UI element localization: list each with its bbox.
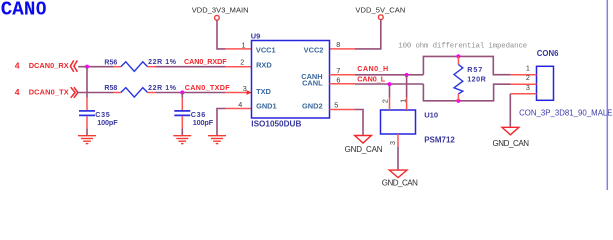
node R57 top junction xyxy=(456,54,460,58)
svg-text:RXD: RXD xyxy=(256,60,272,69)
resistor R57 xyxy=(457,56,459,64)
wire RX branch down to C35 xyxy=(86,67,88,98)
svg-text:PSM712: PSM712 xyxy=(424,135,455,144)
svg-text:1: 1 xyxy=(398,99,407,103)
svg-text:3: 3 xyxy=(388,141,397,145)
ground below C35 xyxy=(78,136,96,144)
svg-text:8: 8 xyxy=(336,40,340,49)
svg-text:CAN0_L: CAN0_L xyxy=(357,74,386,83)
wire VDD_5V_CAN to U9 pin8 xyxy=(355,20,381,49)
power VDD_5V_CAN symbol xyxy=(378,15,383,20)
wire CON6 pin3 to ground xyxy=(509,94,511,127)
ground arrow below CON6 xyxy=(502,127,519,135)
sheet border xyxy=(606,0,608,190)
svg-text:R58: R58 xyxy=(104,85,117,92)
IC U9 ISO1050DUB xyxy=(252,41,330,119)
svg-text:CAN0_H: CAN0_H xyxy=(357,64,388,73)
svg-text:GND_CAN: GND_CAN xyxy=(493,139,530,148)
wire TX branch down to C36 xyxy=(181,93,183,98)
wire VDD_3V3_MAIN to U9 pin1 xyxy=(217,20,226,49)
svg-text:R56: R56 xyxy=(104,59,117,66)
ground below C36 xyxy=(173,136,191,144)
ground below pin4 xyxy=(208,136,226,144)
svg-text:VDD_5V_CAN: VDD_5V_CAN xyxy=(355,6,405,15)
resistor R58 xyxy=(114,92,121,94)
ground arrow below U9 pin5 xyxy=(355,136,372,144)
svg-text:3: 3 xyxy=(526,83,530,92)
U9 pin 7 stub xyxy=(330,74,356,76)
svg-text:4: 4 xyxy=(15,87,20,97)
svg-text:CON6: CON6 xyxy=(537,49,559,58)
wire TX to pin3, net CAN0_TXDF xyxy=(156,92,226,94)
wire CAN0_L xyxy=(355,83,423,85)
CON6 pin 2 stub xyxy=(511,83,537,85)
svg-text:GND2: GND2 xyxy=(302,102,323,111)
U9 pin 1 stub xyxy=(226,48,252,50)
wire RX row xyxy=(78,66,113,68)
svg-text:100 ohm differential impedance: 100 ohm differential impedance xyxy=(398,42,527,50)
svg-text:CAN0_TXDF: CAN0_TXDF xyxy=(185,83,231,92)
U9 pin 6 stub xyxy=(330,83,356,85)
svg-text:VDD_3V3_MAIN: VDD_3V3_MAIN xyxy=(192,6,249,15)
U9 pin 5 stub xyxy=(330,109,356,111)
wire pin4 to ground xyxy=(217,109,226,136)
svg-text:U9: U9 xyxy=(251,31,260,40)
wire U9 pin5 to ground xyxy=(355,110,363,136)
svg-text:6: 6 xyxy=(336,75,340,84)
svg-text:100pF: 100pF xyxy=(97,118,118,127)
svg-text:22R 1%: 22R 1% xyxy=(148,85,177,92)
resistor R56 xyxy=(114,66,121,68)
U9 pin 2 stub xyxy=(226,66,252,68)
svg-text:5: 5 xyxy=(334,100,338,109)
U10 pin 2 stub xyxy=(389,84,391,97)
svg-text:7: 7 xyxy=(336,66,340,75)
svg-text:100pF: 100pF xyxy=(193,118,214,127)
U10 pin 1 stub xyxy=(406,75,408,98)
svg-text:U10: U10 xyxy=(424,111,438,120)
U9 pin 8 stub xyxy=(330,48,356,50)
wire RX to pin2, net CAN0_RXDF xyxy=(156,66,226,68)
capacitor C35 xyxy=(79,110,95,112)
capacitor C36 xyxy=(174,110,190,112)
node L junction xyxy=(387,82,391,86)
connector CON6 box xyxy=(537,66,554,100)
svg-text:CAN0: CAN0 xyxy=(1,0,47,21)
svg-text:GND1: GND1 xyxy=(256,102,277,111)
U9 pin 4 stub xyxy=(226,108,252,110)
svg-text:CANL: CANL xyxy=(302,79,323,88)
svg-text:2: 2 xyxy=(240,58,244,67)
wire H loop top xyxy=(423,56,510,74)
svg-text:4: 4 xyxy=(15,61,20,71)
IC U10 PSM712 xyxy=(381,110,416,134)
svg-text:VCC1: VCC1 xyxy=(256,45,276,54)
svg-text:GND_CAN: GND_CAN xyxy=(382,179,418,188)
wire TX row xyxy=(78,92,113,94)
wire U10 pin3 to ground xyxy=(397,147,399,170)
svg-text:DCAN0_TX: DCAN0_TX xyxy=(29,88,69,97)
node R57 bottom junction xyxy=(456,99,460,103)
svg-text:120R: 120R xyxy=(467,74,486,83)
svg-text:3: 3 xyxy=(243,84,247,93)
svg-text:GND_CAN: GND_CAN xyxy=(345,145,383,154)
svg-text:1: 1 xyxy=(242,40,246,49)
CON6 pin 1 stub xyxy=(511,74,537,76)
ground arrow below U10 xyxy=(389,170,407,178)
node TX junction xyxy=(180,90,184,94)
svg-text:CON_3P_3D81_90_MALE: CON_3P_3D81_90_MALE xyxy=(519,108,612,117)
svg-text:2: 2 xyxy=(381,99,390,103)
power VDD_3V3_MAIN symbol xyxy=(215,15,220,20)
svg-text:VCC2: VCC2 xyxy=(304,45,324,54)
svg-text:TXD: TXD xyxy=(256,87,271,96)
svg-text:4: 4 xyxy=(238,100,242,109)
svg-text:ISO1050DUB: ISO1050DUB xyxy=(251,120,301,129)
svg-text:CAN0_RXDF: CAN0_RXDF xyxy=(184,57,227,66)
svg-text:DCAN0_RX: DCAN0_RX xyxy=(29,61,69,70)
wire CAN0_H xyxy=(355,74,423,76)
U10 pin 3 stub xyxy=(397,134,399,147)
U9 pin 3 stub with arrow xyxy=(226,92,252,94)
svg-text:1: 1 xyxy=(526,63,530,72)
node H junction xyxy=(405,73,409,77)
node RX junction xyxy=(85,65,89,69)
svg-text:R57: R57 xyxy=(467,65,482,74)
svg-text:22R 1%: 22R 1% xyxy=(148,59,177,66)
CON6 pin 3 stub xyxy=(511,93,537,95)
wire L loop bottom xyxy=(423,84,510,101)
svg-text:2: 2 xyxy=(526,73,530,82)
